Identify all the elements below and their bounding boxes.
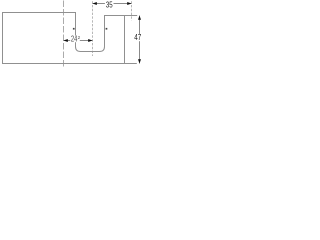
- center line (dashed, x=63): [63, 1, 65, 68]
- dimension 35 line: [93, 3, 132, 5]
- left fixing dot: [73, 28, 75, 30]
- dimension 47 label: [134, 34, 142, 41]
- dimension 35 left arrow: [93, 2, 97, 5]
- svg-text:2: 2: [78, 35, 81, 40]
- dimension 47 up arrow: [138, 16, 141, 20]
- dimension 24 left arrow: [64, 39, 68, 42]
- countertop outline with cutout: [3, 13, 125, 64]
- top-right extension line: [125, 15, 138, 17]
- dimension 24 label: [70, 36, 80, 43]
- dimension 24 line: [64, 40, 93, 42]
- bottom-right extension line: [125, 63, 137, 65]
- dimension 35 right arrow: [127, 2, 131, 5]
- dimension 35 label: [105, 1, 114, 8]
- extension line left of 35 dim (dashed, x=92.5): [92, 1, 94, 56]
- right fixing dot: [106, 28, 108, 30]
- extension line right of 35 dim (dashed, x=131.5): [131, 1, 133, 20]
- dimension 47 down arrow: [138, 59, 141, 63]
- svg-text:47: 47: [134, 33, 141, 42]
- dimension 24 right arrow: [88, 39, 92, 42]
- svg-text:35: 35: [106, 0, 113, 9]
- dimension 47 line: [139, 16, 141, 64]
